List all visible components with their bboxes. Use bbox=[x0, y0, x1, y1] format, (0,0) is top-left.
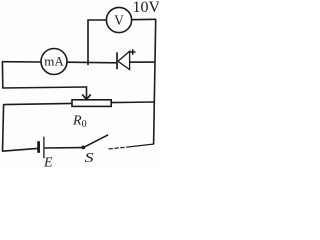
label: diode + polarity mark bbox=[130, 49, 136, 55]
wire: wiper feed horizontal (left vertical to wiper) bbox=[2, 87, 86, 88]
rheostat R0 (resistive body) bbox=[72, 100, 111, 107]
wire: mA right terminal to diode cathode bbox=[67, 61, 117, 64]
wire: voltmeter left horizontal bbox=[87, 19, 106, 21]
wire: lower loop top-left (left vertical to rheostat) bbox=[4, 103, 73, 104]
svg-text:mA: mA bbox=[44, 54, 64, 69]
wire: switch contact to bottom-right corner (solid part) bbox=[129, 144, 154, 147]
svg-text:V: V bbox=[114, 12, 124, 29]
junction: wiper arrowhead onto rheostat bbox=[82, 94, 91, 99]
diode D (triangle) bbox=[118, 51, 130, 69]
wire: right vertical bus bbox=[154, 19, 156, 144]
svg-text:S: S bbox=[85, 150, 94, 165]
wire: switch contact to bottom-right corner (dashed faint part) bbox=[109, 147, 130, 149]
milliammeter mA bbox=[41, 49, 67, 75]
voltmeter V bbox=[106, 7, 131, 32]
wire: bottom left (corner to battery) bbox=[2, 148, 38, 151]
wire: voltmeter left vertical drop bbox=[87, 20, 89, 66]
battery E (long thin positive plate) bbox=[43, 137, 45, 159]
diode D (cathode bar) bbox=[116, 52, 118, 69]
wire: rheostat right to right bus bbox=[111, 101, 155, 104]
switch S (open lever arm) bbox=[84, 135, 108, 147]
wire: wiper vertical with arrowhead bbox=[86, 86, 88, 98]
wire: upper loop left vertical bbox=[1, 61, 3, 88]
svg-text:10V: 10V bbox=[133, 0, 160, 16]
wire: lower loop left vertical bbox=[3, 104, 4, 151]
svg-text:E: E bbox=[43, 156, 53, 167]
battery E (short thick negative plate) bbox=[37, 141, 40, 153]
wire: diode anode to right bus bbox=[130, 61, 155, 63]
wire: battery to switch pivot bbox=[45, 147, 82, 149]
wire: upper loop top segment (node to mA left terminal) bbox=[2, 61, 41, 63]
switch S (pivot dot) bbox=[81, 146, 85, 150]
wire: voltmeter right horizontal bbox=[132, 18, 157, 20]
